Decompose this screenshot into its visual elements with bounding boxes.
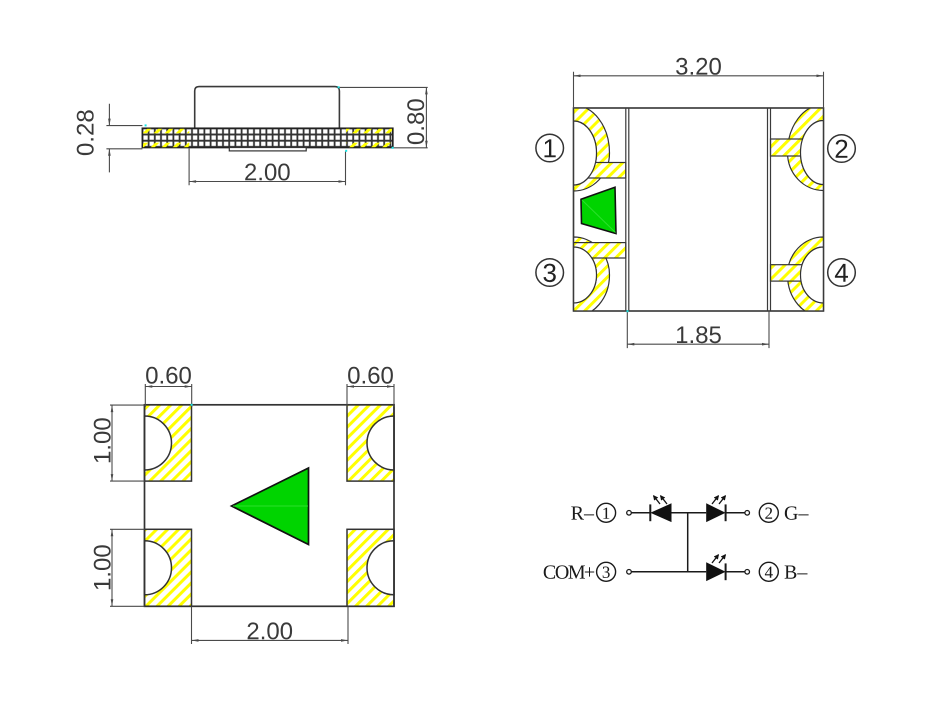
terminal 2 pad bar (771, 139, 824, 156)
wire D2 cathode to node2 (726, 512, 745, 514)
dimension 1.85 extension lines (627, 311, 769, 348)
terminal 1 castellation hole (574, 121, 597, 185)
pin circle 2 (759, 503, 778, 522)
terminal 3 pad bar (574, 243, 626, 258)
terminal 4 pad bar (771, 265, 824, 281)
wire D1 anode to junction to D2 anode (672, 512, 707, 514)
label R- (571, 507, 594, 520)
dim text 2.00 (side view) (245, 164, 290, 181)
terminal 4 plating band (788, 237, 824, 317)
wire node1 to D1 cathode (631, 512, 650, 514)
label COM+ (544, 565, 595, 578)
schematic pin digit 3 (603, 567, 610, 579)
terminal 1 plating band (574, 105, 610, 191)
pin circle 4 (759, 562, 778, 581)
wire D3 cathode to node4 (726, 571, 745, 573)
dimension 1.00 top : line with arrows (111, 405, 113, 481)
dimension 2.00 extension lines (189, 149, 345, 186)
schematic pin digit 4 (765, 567, 773, 578)
terminal node 2 (745, 511, 750, 516)
dimension 3.20 extension lines (574, 72, 824, 108)
LED D3 (blue, points right) triangle (706, 562, 725, 581)
LED D1 emission arrows (654, 496, 667, 504)
dimension 3.20 line with arrows (574, 75, 824, 77)
polarity mark green trapezoid (581, 187, 616, 233)
dim text 0.60 right (348, 367, 393, 384)
dimension 0.60 left : line with arrows (145, 386, 191, 388)
inner body edge lines (1.85 body) (626, 108, 771, 311)
LED D2 emission arrows (712, 496, 725, 504)
polarity green triangle (232, 468, 309, 545)
schematic pin digit 1 (603, 508, 609, 519)
terminal 2 plating band (788, 105, 824, 191)
LED D3 cathode bar (725, 563, 727, 580)
pad 4 (bottom-right) (347, 529, 394, 606)
LED D3 emission arrows (712, 555, 725, 563)
pin label circle 4 (828, 259, 856, 287)
dimension 2.00 : extension lines (192, 607, 349, 645)
package outline redraw (574, 108, 824, 311)
wire node3 to D3 anode (631, 571, 706, 573)
dimension 1.00 top : extension lines (110, 405, 145, 481)
pad 3 (bottom-left) (145, 529, 192, 606)
terminal node 4 (745, 570, 750, 575)
dim text 0.28 (77, 110, 94, 155)
dimension 0.28 arrows (108, 104, 110, 173)
substrate strip with mesh grid (142, 128, 392, 147)
bottom center pad protrusion (229, 148, 306, 151)
pin circle 1 (597, 503, 616, 522)
schematic pin digit 2 (765, 508, 772, 519)
pad 1 (top-left) (145, 405, 192, 481)
terminal plating hatch left (yellow dashes) (143, 129, 189, 147)
package outline (574, 108, 824, 311)
label B- (785, 566, 808, 579)
pin number 3 (544, 264, 556, 283)
LED D2 cathode bar (725, 504, 727, 521)
dimension 0.60 right : extension lines (347, 384, 394, 407)
LED D2 (green, points right) triangle (706, 503, 725, 522)
dimension 2.00 : line with arrows (192, 639, 349, 641)
dimension 1.85 line with arrows (627, 343, 769, 345)
dimension 0.80 arrow line (425, 87, 427, 147)
label G- (785, 506, 809, 519)
pin circle 3 (597, 562, 616, 581)
cyan CAD endpoint markers (145, 86, 629, 406)
LED D1 (red, points left) cathode bar (649, 504, 651, 521)
castellation bite pad2 (367, 416, 394, 470)
terminal 1 pad bar (574, 163, 626, 179)
LED D1 triangle (650, 503, 671, 522)
castellation bite pad4 (367, 541, 394, 595)
dimension 0.80 extension lines (339, 87, 427, 147)
terminal node 1 (627, 511, 632, 516)
dim text 3.20 (676, 58, 721, 75)
pad 2 (top-right) (347, 405, 394, 481)
dimension 2.00 line with arrows (189, 181, 345, 183)
pin number 2 (836, 140, 848, 158)
terminal 4 castellation hole (801, 247, 824, 303)
dim text 2.00 (top view) (248, 622, 293, 639)
body (epoxy lens block) side profile (195, 87, 340, 129)
pin label circle 2 (828, 135, 856, 163)
terminal plating hatch right (yellow dashes) (346, 129, 392, 147)
terminal 3 plating band (574, 237, 610, 317)
common junction vertical wire (687, 513, 689, 572)
castellation bite pad3 (145, 541, 172, 595)
terminal 2 castellation hole (801, 121, 824, 185)
dim text 0.60 left (146, 367, 191, 384)
dimension 1.00 bottom : extension lines (110, 529, 145, 606)
pin label circle 3 (536, 259, 564, 287)
pin number 1 (545, 139, 556, 157)
dimension 1.00 bottom : line with arrows (111, 529, 113, 606)
package top-view outline (145, 405, 395, 607)
dim text 1.85 (677, 326, 721, 343)
terminal node 3 (627, 570, 632, 575)
dimension 0.60 right : line with arrows (347, 386, 394, 388)
dimension 0.28 extension lines (106, 126, 142, 149)
castellation bite pad1 (145, 416, 172, 470)
dim text 1.00 lower (94, 545, 111, 589)
terminal 3 castellation hole (574, 247, 597, 303)
pin label circle 1 (536, 134, 564, 162)
dim text 1.00 upper (94, 418, 111, 462)
dimension 0.60 left : extension lines (145, 384, 191, 407)
pin number 4 (835, 264, 848, 282)
dim text 0.80 (407, 99, 424, 144)
